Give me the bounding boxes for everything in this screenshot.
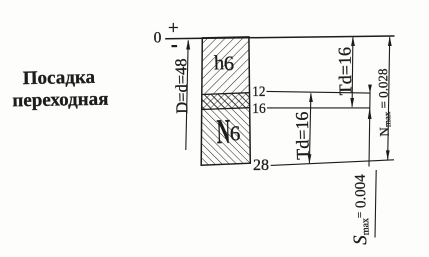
zero line xyxy=(165,36,394,39)
line at level 12 xyxy=(202,93,250,95)
svg-text:Smax= 0.004: Smax= 0.004 xyxy=(349,174,372,245)
Nmax arrow up xyxy=(388,36,392,46)
svg-text:Посадка: Посадка xyxy=(23,67,96,89)
zone rectangle outline xyxy=(201,37,250,165)
overlap band cross hatch xyxy=(202,93,250,110)
leader from 28 xyxy=(271,160,394,166)
tolerance zone h6 (hatched /) xyxy=(202,37,250,95)
tolerance zone N6 (hatched \) xyxy=(201,108,250,166)
lower Td arrow down xyxy=(308,154,312,164)
svg-text:6: 6 xyxy=(230,121,241,145)
line at level 16 xyxy=(202,108,250,110)
svg-text:28: 28 xyxy=(253,157,269,174)
label h6 xyxy=(214,52,235,76)
label Smax = 0.004 xyxy=(349,174,372,245)
arrowhead up of D line xyxy=(186,39,190,49)
svg-text:D=d=48: D=d=48 xyxy=(171,58,191,114)
gap arrow down to 12 xyxy=(368,85,372,93)
upper Td arrow up xyxy=(351,36,355,46)
label N6 xyxy=(216,112,241,152)
svg-text:16: 16 xyxy=(252,101,266,117)
minus sign xyxy=(172,45,178,47)
dimension line D=d=48 xyxy=(186,41,188,151)
gap arrow up to 16 xyxy=(368,108,372,119)
Smax gap dimension line (12 to 16) xyxy=(369,85,370,167)
leader from 12 xyxy=(267,91,371,93)
lower Td dimension line xyxy=(309,94,311,164)
upper Td dimension line xyxy=(351,38,354,107)
svg-text:12: 12 xyxy=(252,84,265,100)
leader from 16 xyxy=(267,107,370,109)
svg-text:N: N xyxy=(216,112,231,151)
label Nmax = 0.028 xyxy=(375,68,393,136)
svg-text:+: + xyxy=(168,18,179,39)
lower Td arrow up xyxy=(309,92,313,102)
svg-text:0: 0 xyxy=(154,30,162,47)
svg-text:Td=16: Td=16 xyxy=(334,47,355,96)
svg-text:переходная: переходная xyxy=(12,89,108,112)
svg-text:Nmax = 0.028: Nmax = 0.028 xyxy=(375,68,393,136)
Smax leader line xyxy=(375,170,376,238)
svg-text:Td=16: Td=16 xyxy=(292,111,313,160)
Nmax dimension line xyxy=(388,37,390,159)
svg-text:6: 6 xyxy=(224,53,235,75)
Nmax arrow down xyxy=(386,150,390,160)
upper Td arrow down xyxy=(350,98,354,108)
